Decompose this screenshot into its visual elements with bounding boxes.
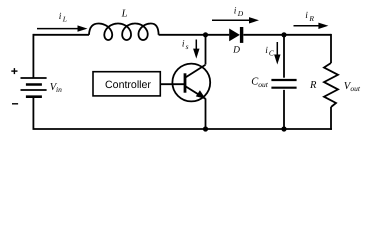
current arrow is bbox=[182, 40, 200, 59]
node: top junction at capacitor bbox=[281, 32, 286, 37]
wire top-left horizontal bbox=[33, 34, 89, 36]
wire left vertical bottom (battery to corner) bbox=[32, 97, 34, 129]
transistor Q1 circle bbox=[172, 64, 210, 102]
transistor base bar bbox=[184, 73, 187, 92]
wire collector branch vertical bbox=[205, 35, 207, 65]
wire diode to top-right corner bbox=[243, 34, 331, 36]
svg-text:in: in bbox=[56, 85, 62, 94]
diode cathode bar bbox=[240, 27, 243, 43]
current arrow iR bbox=[294, 11, 329, 29]
svg-text:R: R bbox=[308, 14, 314, 23]
capacitor Cout bbox=[271, 80, 296, 88]
current arrow iD bbox=[212, 7, 259, 24]
transistor emitter lead bbox=[185, 86, 206, 99]
wire controller to base bbox=[160, 83, 184, 85]
wire bottom horizontal bbox=[33, 128, 332, 130]
svg-text:out: out bbox=[350, 84, 361, 93]
wire right vertical top (corner to resistor) bbox=[330, 34, 332, 63]
svg-text:i: i bbox=[234, 7, 237, 17]
svg-text:i: i bbox=[305, 11, 308, 21]
diode D bbox=[229, 29, 240, 42]
current arrow iL bbox=[37, 12, 88, 32]
wire emitter branch vertical bbox=[205, 99, 207, 130]
battery Vin bbox=[21, 78, 47, 97]
node: bottom junction at capacitor bbox=[281, 126, 286, 131]
wire capacitor branch top bbox=[283, 35, 285, 78]
svg-text:D: D bbox=[237, 9, 244, 18]
resistor R bbox=[324, 63, 338, 107]
wire right vertical bottom (resistor to corner) bbox=[330, 107, 332, 130]
inductor L bbox=[89, 24, 159, 41]
svg-text:Controller: Controller bbox=[105, 79, 151, 91]
svg-text:L: L bbox=[62, 15, 67, 24]
svg-text:L: L bbox=[121, 8, 128, 19]
wire capacitor branch bottom bbox=[283, 90, 285, 129]
svg-text:s: s bbox=[186, 42, 189, 51]
current arrow iC bbox=[265, 42, 280, 65]
battery plus sign bbox=[11, 68, 17, 74]
svg-text:i: i bbox=[265, 46, 268, 56]
battery minus sign bbox=[12, 103, 18, 105]
transistor emitter arrowhead bbox=[196, 90, 206, 99]
controller box bbox=[93, 72, 160, 96]
svg-text:D: D bbox=[232, 46, 240, 56]
wire inductor to diode bbox=[159, 34, 230, 36]
svg-text:R: R bbox=[309, 80, 317, 91]
node: bottom junction at emitter bbox=[203, 126, 208, 131]
wire left vertical top (corner to battery) bbox=[32, 34, 34, 78]
node: top junction at transistor collector bbox=[203, 32, 208, 37]
svg-text:out: out bbox=[258, 80, 269, 89]
svg-text:i: i bbox=[182, 40, 185, 50]
transistor collector lead bbox=[185, 65, 206, 78]
svg-text:i: i bbox=[59, 12, 62, 22]
